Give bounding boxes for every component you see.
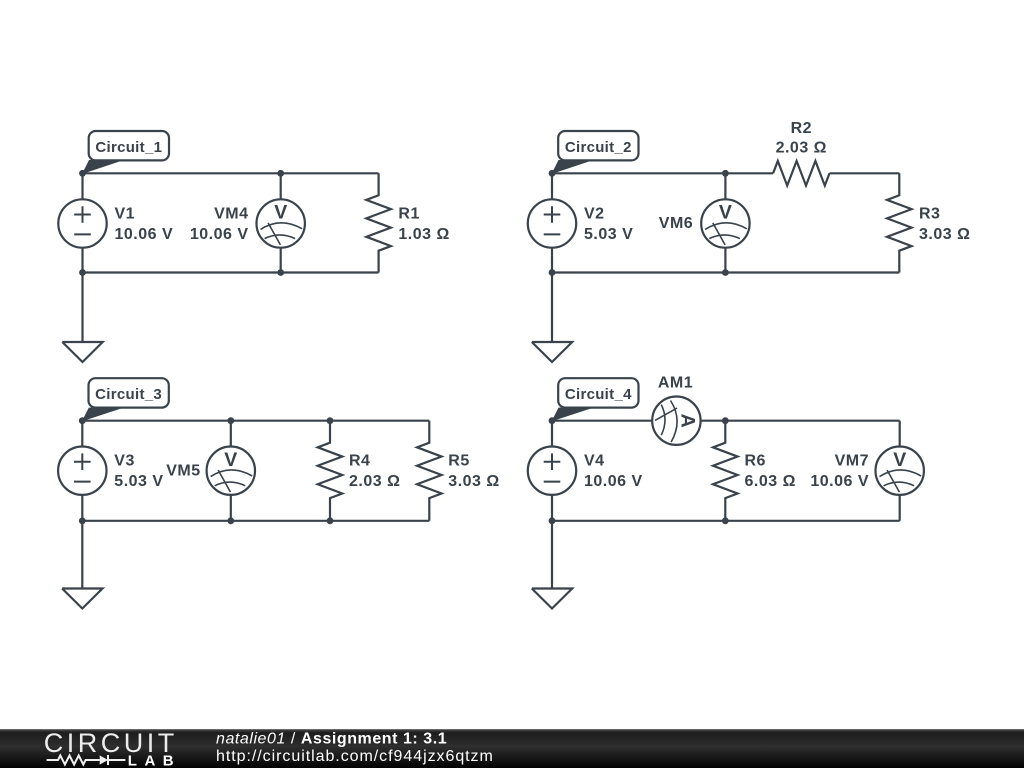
resistor R4 (318, 421, 343, 521)
wire VM7 stubs (899, 421, 901, 521)
voltage source V4 (528, 447, 576, 495)
svg-text:R4: R4 (349, 453, 370, 470)
svg-text:V: V (224, 449, 237, 471)
wire bottom C1 (83, 271, 379, 273)
logo resistor-diode glyph (47, 755, 126, 765)
ground GND1 (62, 273, 102, 363)
svg-text:5.03 V: 5.03 V (114, 473, 163, 490)
wire VM6 stubs (724, 173, 726, 272)
svg-text:6.03 Ω: 6.03 Ω (745, 473, 796, 490)
svg-text:V4: V4 (584, 453, 605, 470)
wire VM4 stubs (280, 173, 282, 272)
wire V3 stubs (81, 421, 83, 521)
svg-text:Circuit_3: Circuit_3 (95, 386, 162, 403)
resistor R3 (887, 173, 912, 272)
wire VM5 stubs (230, 421, 232, 521)
node dots C4 (549, 417, 729, 524)
svg-text:V3: V3 (114, 453, 135, 470)
node dots C3 (79, 417, 334, 524)
svg-text:LAB: LAB (128, 753, 181, 768)
ground GND2 (532, 273, 572, 363)
svg-text:Circuit_4: Circuit_4 (565, 386, 632, 403)
svg-text:V2: V2 (584, 206, 605, 223)
svg-text:http://circuitlab.com/cf944jzx: http://circuitlab.com/cf944jzx6qtzm (216, 748, 494, 765)
svg-text:Circuit_1: Circuit_1 (95, 139, 162, 156)
voltage source V2 (528, 199, 576, 247)
svg-text:10.06 V: 10.06 V (190, 226, 249, 243)
svg-text:VM4: VM4 (214, 206, 248, 223)
svg-text:VM5: VM5 (166, 463, 200, 480)
svg-text:natalie01 / Assignment 1: 3.1: natalie01 / Assignment 1: 3.1 (216, 731, 447, 748)
voltmeter VM4 (257, 199, 305, 247)
wire V2 stubs (551, 173, 553, 272)
svg-text:V1: V1 (115, 206, 136, 223)
svg-text:V: V (274, 202, 287, 224)
ground GND4 (532, 521, 572, 609)
wire top C2 (552, 172, 899, 174)
resistor R2 (773, 161, 829, 186)
wire bottom C2 (552, 271, 899, 273)
voltmeter VM7 (876, 447, 924, 495)
wire top C1 (83, 172, 379, 174)
node dots C2 (549, 170, 729, 276)
wire V1 stubs (81, 173, 83, 272)
footer bar (0, 729, 1024, 768)
resistor R1 (366, 173, 391, 272)
voltmeter VM5 (207, 447, 255, 495)
component text labels (114, 120, 970, 490)
svg-text:VM6: VM6 (659, 215, 693, 232)
svg-text:5.03 V: 5.03 V (584, 226, 633, 243)
svg-text:2.03 Ω: 2.03 Ω (349, 473, 400, 490)
svg-text:2.03 Ω: 2.03 Ω (776, 140, 827, 157)
svg-text:R5: R5 (448, 453, 469, 470)
svg-text:A: A (676, 414, 698, 428)
ammeter AM1 (652, 397, 700, 445)
voltage source V1 (58, 199, 106, 247)
resistor R5 (417, 421, 442, 521)
wire top C4 (552, 420, 900, 422)
svg-text:VM7: VM7 (835, 453, 869, 470)
svg-text:AM1: AM1 (658, 375, 693, 392)
svg-text:V: V (719, 202, 732, 224)
wire bottom C3 (82, 520, 429, 522)
flag label Circuit_2 (552, 131, 639, 174)
svg-text:3.03 Ω: 3.03 Ω (448, 473, 499, 490)
flag label Circuit_3 (82, 378, 169, 421)
flag label Circuit_1 (82, 131, 169, 174)
node dots C1 (79, 170, 284, 276)
svg-text:R6: R6 (745, 453, 766, 470)
svg-text:10.06 V: 10.06 V (810, 473, 869, 490)
resistor R6 (713, 421, 738, 521)
svg-text:1.03 Ω: 1.03 Ω (398, 226, 449, 243)
wire bottom C4 (552, 520, 900, 522)
voltmeter VM6 (701, 199, 749, 247)
wire V4 stubs (551, 421, 553, 521)
svg-text:10.06 V: 10.06 V (584, 473, 643, 490)
svg-text:V: V (893, 449, 906, 471)
svg-text:10.06 V: 10.06 V (115, 226, 174, 243)
svg-text:R1: R1 (398, 206, 419, 223)
flag label Circuit_4 (552, 378, 639, 421)
wire top C3 (82, 420, 429, 422)
svg-text:R3: R3 (919, 206, 940, 223)
svg-text:R2: R2 (791, 120, 812, 137)
svg-text:Circuit_2: Circuit_2 (565, 139, 632, 156)
voltage source V3 (58, 447, 106, 495)
ground GND3 (62, 521, 102, 609)
svg-text:3.03 Ω: 3.03 Ω (919, 226, 970, 243)
